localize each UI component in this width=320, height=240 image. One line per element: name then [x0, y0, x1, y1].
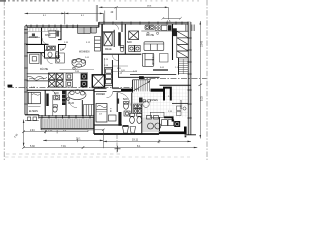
exterior wall top (right unit) gray poche [99, 22, 191, 24]
door arc bathroom left [42, 38, 49, 45]
sofa right unit horizontal [144, 42, 164, 51]
svg-text:KÜCHE: KÜCHE [146, 34, 155, 37]
interior wall horizontal y90.2 (left unit) [27, 89, 95, 91]
washer dryer squares [134, 104, 142, 113]
bed foot line [28, 106, 40, 108]
kitchen row bottom-right [162, 120, 174, 126]
step wall between units [98, 22, 100, 27]
chair strip room2 [56, 31, 59, 37]
wardrobe column right [177, 31, 189, 57]
kitchen X-square row1 c1 [48, 73, 63, 79]
wall stub y44.5 [58, 44, 66, 46]
corridor door arc lower [69, 99, 77, 107]
storage closet right unit [105, 67, 113, 85]
kitchen dark square row2 c4 [81, 81, 88, 87]
table lower room [30, 54, 39, 63]
faint dashed line bottom [6, 153, 120, 155]
svg-text:ZIMMER: ZIMMER [179, 100, 181, 109]
door arc hall left [42, 52, 48, 58]
kitchen X-square row2 c1 [48, 81, 63, 87]
bottom window mullions [42, 115, 94, 119]
svg-text:FLUR: FLUR [68, 103, 74, 105]
right vertical dimension line [199, 21, 201, 139]
dimension line top-right [96, 5, 168, 22]
hob circles right unit [155, 25, 160, 30]
section marker left [8, 85, 13, 88]
corridor wall double left part [94, 89, 121, 92]
wall y74.6 [130, 74, 176, 76]
interior wall horizontal y44.4 [26, 43, 49, 45]
nightstand right unit bedroom [109, 115, 117, 121]
wall x141.2 [141, 104, 143, 134]
cropped title text row top faint [62, 0, 199, 2]
desk room2 [49, 30, 56, 37]
long bottom dimension line [24, 147, 198, 149]
small wc left of basins [120, 46, 124, 52]
dark text blob on wall [118, 99, 120, 104]
entry door arc right unit [113, 24, 119, 30]
door arc hall right unit [112, 54, 119, 61]
kitchen island top line [48, 72, 88, 74]
shower enclosure [92, 75, 104, 88]
window mullions top-left unit [26, 25, 77, 29]
svg-text:10.45: 10.45 [201, 40, 204, 47]
exterior wall left gray poche [25, 26, 27, 115]
svg-text:BAD: BAD [44, 49, 49, 52]
bath fixtures left unit [47, 46, 59, 57]
chimney Pi wall [164, 88, 171, 101]
terrace decking stripes bottom-left [43, 119, 94, 129]
hall wall x112.4 [111, 60, 113, 89]
bottom window band left unit gray poche [39, 116, 94, 118]
stairs side wall [132, 80, 134, 93]
kitchen light square row2 c3 [66, 81, 72, 87]
svg-text:ZIMMER: ZIMMER [29, 37, 38, 39]
washbasin squares right unit [129, 45, 140, 51]
stairs treads [135, 80, 150, 92]
room labels [29, 34, 181, 113]
wall segment y70 [153, 69, 168, 71]
svg-text:WOHNEN: WOHNEN [79, 52, 90, 54]
right wall bottom join [185, 134, 197, 136]
dark stove bottom-right [174, 121, 180, 127]
interior dim in bedroom [97, 111, 107, 113]
exterior wall right gray poche [188, 22, 191, 135]
window mullions top-right unit [104, 22, 188, 25]
section marker right [139, 76, 144, 79]
wall x172.5 right unit [172, 24, 174, 60]
door arc tiled room [117, 93, 130, 106]
dining cloud C2 [67, 90, 86, 101]
svg-text:ESSEN: ESSEN [150, 100, 158, 102]
table tiled room [150, 112, 164, 117]
interior wall vertical x41.5 (left unit) [41, 27, 43, 44]
corridor door arc [107, 92, 113, 98]
dark label strip TREPPE [118, 32, 121, 46]
coffee table right unit [160, 54, 169, 63]
sink box with circles left unit [56, 53, 65, 63]
bathroom left wall right unit [124, 24, 126, 54]
stairs direction diagonal [133, 81, 150, 91]
dark fridge tiled room [139, 98, 143, 103]
interior wall vertical x45.2 lower-left [44, 90, 46, 116]
dash-dot vertical marker [116, 135, 118, 153]
insulation hatch top right corner [186, 25, 195, 32]
shelf along central wall [95, 37, 101, 52]
interior wall vertical x77.5 lower-left [81, 100, 83, 118]
kitchen sink right unit double basin [145, 25, 154, 29]
svg-text:5.30: 5.30 [30, 145, 35, 148]
cropped title text row top [0, 0, 58, 1]
lower room box left unit [27, 53, 45, 65]
corridor thick wall dark2 [151, 89, 164, 92]
toilets pair bottom-center [130, 114, 142, 124]
short dim right y18 [162, 17, 182, 20]
bottom-left vertical dimension [24, 120, 104, 149]
kitchen dark square row1 c4 [81, 73, 88, 79]
svg-text:KÜCHE: KÜCHE [40, 68, 49, 71]
bed lower-left bedroom [28, 92, 40, 103]
wardrobe dark strip lower-left [46, 94, 48, 107]
landing wall y85.3 right [160, 84, 192, 86]
right dim tick [199, 84, 203, 86]
svg-text:20.1: 20.1 [76, 139, 81, 141]
bed edge line room1 [27, 36, 40, 38]
svg-text:19.11: 19.11 [132, 139, 139, 142]
round table chairs terrace right [147, 116, 161, 130]
section line right [139, 78, 207, 80]
svg-text:WOHNEN: WOHNEN [153, 54, 155, 65]
wall stub x122 [121, 24, 123, 32]
wardrobe dark strip right unit [118, 112, 121, 126]
exterior wall top (left unit) gray poche [25, 26, 99, 28]
interior wall y125 right unit [94, 124, 122, 126]
svg-text:ZIMMER: ZIMMER [96, 94, 105, 96]
sofa right unit vertical [142, 53, 154, 66]
small dimension texts scattered [31, 42, 180, 113]
cellar windows below rooms [28, 117, 37, 120]
bathroom box left unit [45, 44, 59, 58]
wall x131.8 vertical [131, 93, 133, 114]
dark oven right unit [168, 25, 172, 30]
svg-text:BAD: BAD [123, 98, 128, 101]
dimension line top-left [25, 11, 105, 25]
tiled floor room right [132, 93, 188, 118]
wall x117.2 lower [116, 93, 118, 113]
arrowheads top-left dim [25, 13, 29, 15]
wall x61 upper [58, 25, 61, 40]
sofa top left unit [78, 27, 97, 33]
tiled floor upper part right [166, 86, 189, 92]
svg-text:5.15: 5.15 [201, 96, 204, 101]
door arc living entry [60, 45, 66, 51]
left unit bottom wall [25, 114, 39, 116]
interior wall horizontal y54.2 right unit [102, 53, 141, 55]
interior wall vertical x52.8 lower-left [52, 95, 54, 116]
svg-text:BAD: BAD [127, 41, 132, 44]
svg-text:KIND: KIND [45, 35, 51, 37]
central dividing wall upper x102 [101, 24, 103, 75]
closet band top rooms [27, 28, 61, 32]
wardrobe closet niche [84, 105, 94, 118]
wall y103.5 right [172, 103, 188, 105]
terrace parapet thick bottom-right [159, 127, 186, 133]
right unit bottom wall [94, 133, 159, 135]
kitchen counter right unit [141, 30, 172, 32]
pedestal basins [123, 125, 136, 133]
wavy bench band left [27, 74, 49, 81]
terrace gray bottom-right [142, 118, 160, 133]
shower X box right unit [129, 31, 139, 40]
svg-text:7.01: 7.01 [61, 145, 66, 148]
bath fixtures lower-middle [53, 95, 60, 112]
interior dim line living [60, 68, 94, 70]
BED right unit lower bedroom [96, 104, 107, 123]
stairs flight2 side wall [178, 58, 180, 75]
crib with X right unit [104, 32, 112, 45]
svg-text:BAD: BAD [54, 92, 59, 95]
cross marker bottom [115, 146, 121, 152]
small vertical dim at x116 [114, 6, 118, 20]
svg-text:DIELE: DIELE [105, 49, 112, 51]
nightstand dark room1 [32, 34, 35, 37]
central wall lower x94 [93, 89, 95, 134]
terrace gray bottom-left [41, 118, 95, 128]
step wall bottom-left [38, 115, 40, 119]
door arc bedroom lower-left [50, 90, 56, 96]
boundary dash-dot line left [3, 0, 5, 160]
dimension line 19.1 [103, 140, 191, 144]
bathroom fixtures bottom right-unit [124, 102, 131, 117]
bar stools [147, 32, 159, 34]
bedroom box right unit [103, 30, 114, 47]
interior dim lines hall [105, 58, 136, 74]
svg-text:ELTERN: ELTERN [29, 111, 38, 113]
section line A-A left [8, 86, 132, 88]
dining cloud table C1 [72, 58, 86, 69]
kitchen light square row1 c3 [66, 73, 72, 79]
dark corner wall L in tiled room [164, 117, 173, 121]
stairs top line [133, 79, 151, 81]
terrace railing bottom-left [41, 118, 95, 130]
round table tiled room [143, 100, 150, 108]
fixtures grid right [177, 106, 187, 116]
wall x159.5 terrace [159, 117, 161, 131]
dark shaft column lower-left [62, 91, 65, 105]
hall wall x118.5 [118, 54, 120, 77]
dark fridge right unit [173, 28, 177, 36]
boundary dash-dot line right [206, 0, 208, 160]
kitchen appliance right unit [162, 25, 168, 30]
stairs upper flight right [179, 59, 189, 74]
hall wall y77.3 [118, 76, 160, 78]
corridor thick wall dark1 [121, 89, 133, 92]
svg-text:2.04: 2.04 [30, 130, 35, 132]
